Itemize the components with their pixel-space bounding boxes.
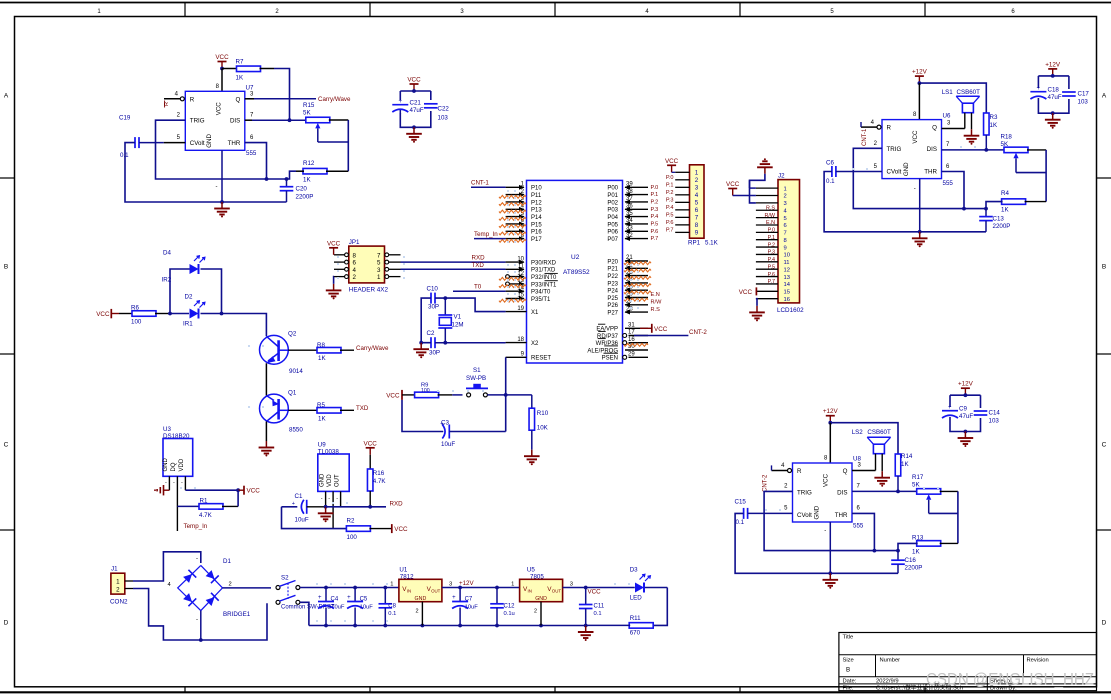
svg-text:7: 7 <box>695 215 699 222</box>
svg-text:9: 9 <box>695 230 699 237</box>
wire Q to LS1 <box>942 121 965 129</box>
svg-text:1K: 1K <box>990 122 998 129</box>
svg-text:Size: Size <box>843 658 854 664</box>
ground (R10) <box>524 450 540 466</box>
svg-text:U2: U2 <box>571 254 580 261</box>
svg-text:R3: R3 <box>990 114 998 121</box>
svg-text:P20: P20 <box>607 259 618 265</box>
svg-text:C17: C17 <box>1078 91 1090 98</box>
svg-text:CSB60T: CSB60T <box>957 89 981 96</box>
svg-text:+: + <box>1036 86 1040 92</box>
svg-text:P.6: P.6 <box>768 272 775 278</box>
regulator U1 7812 <box>390 567 452 626</box>
capacitor C1 10uF <box>282 493 328 524</box>
svg-text:1: 1 <box>784 186 787 192</box>
wire OUT to RXD <box>326 506 386 508</box>
svg-text:R2: R2 <box>347 518 355 525</box>
ground (U3) sideways <box>154 485 169 495</box>
svg-text:R1: R1 <box>200 498 208 505</box>
svg-text:C: C <box>4 442 9 449</box>
wire LCD pin16 to gnd <box>756 299 757 306</box>
svg-text:VCC: VCC <box>247 488 261 495</box>
svg-text:JP1: JP1 <box>349 239 360 246</box>
svg-text:1K: 1K <box>236 75 244 82</box>
svg-text:1K: 1K <box>318 355 326 362</box>
svg-text:5: 5 <box>377 260 381 267</box>
pin 4 reset of U6 <box>861 120 881 129</box>
svg-text:TXD: TXD <box>356 405 369 412</box>
capacitor C13 2200P <box>979 209 1010 232</box>
svg-text:VCC: VCC <box>739 289 753 296</box>
wire TXD net <box>401 262 506 269</box>
svg-text:P24: P24 <box>607 289 618 295</box>
ground (C9 C14) <box>958 432 974 448</box>
wire U7 gnd stub <box>216 150 224 204</box>
resistor R4 1K <box>986 190 1046 214</box>
wire <box>830 423 898 455</box>
wire U5 out <box>563 586 635 590</box>
svg-text:R/W: R/W <box>651 300 663 306</box>
svg-text:LCD1602: LCD1602 <box>777 307 804 314</box>
capacitor C7 10uF <box>452 588 478 626</box>
svg-text:7: 7 <box>784 231 787 237</box>
svg-text:C15: C15 <box>735 499 747 506</box>
svg-text:THR: THR <box>228 140 241 147</box>
svg-text:+12V: +12V <box>1045 61 1061 68</box>
svg-text:THR: THR <box>924 168 937 175</box>
svg-text:2200P: 2200P <box>296 194 314 201</box>
power VCC (U3) <box>238 486 260 495</box>
wire <box>265 422 267 442</box>
svg-text:P.4: P.4 <box>651 214 659 220</box>
capacitor C2 30P <box>427 330 441 357</box>
svg-text:P21: P21 <box>607 267 618 273</box>
svg-text:6: 6 <box>784 223 787 229</box>
wire <box>222 314 267 337</box>
wire VDD to VCC <box>185 488 240 492</box>
svg-text:22: 22 <box>626 263 633 269</box>
svg-text:C1: C1 <box>295 493 303 500</box>
capacitor C20 2200P <box>280 179 314 202</box>
svg-text:100: 100 <box>421 388 430 394</box>
svg-text:1: 1 <box>695 170 699 177</box>
wire <box>487 393 531 397</box>
net label CNT-1 (U6) <box>862 128 868 146</box>
pin 4 reset of U8 <box>772 463 792 472</box>
svg-text:D2: D2 <box>185 294 193 301</box>
wire JP1 pin2 to gnd <box>333 277 335 284</box>
resistor R7 1K <box>236 59 275 82</box>
svg-text:26: 26 <box>626 292 633 298</box>
capacitor C5 10uF <box>347 588 373 626</box>
potentiometer R17 5K <box>912 474 958 543</box>
net label Carry/Wave (Q2) <box>356 345 389 352</box>
power VCC (RP1) <box>665 158 679 173</box>
svg-text:GND: GND <box>319 473 325 487</box>
svg-text:8: 8 <box>695 222 699 229</box>
net label P.5 <box>651 222 659 228</box>
svg-text:4: 4 <box>695 192 699 199</box>
svg-text:8: 8 <box>353 252 357 259</box>
title block <box>839 633 1097 692</box>
svg-text:P10: P10 <box>531 186 542 192</box>
svg-text:VCC: VCC <box>215 102 222 116</box>
net labels at LCD <box>765 205 776 285</box>
svg-text:VCC: VCC <box>364 440 378 447</box>
svg-text:100: 100 <box>131 319 142 326</box>
svg-text:P14: P14 <box>531 215 542 221</box>
svg-text:32: 32 <box>626 233 633 239</box>
svg-text:GND: GND <box>206 134 213 148</box>
svg-text:C12: C12 <box>504 603 516 609</box>
svg-text:CNT-1: CNT-1 <box>471 180 489 187</box>
ground (JP1) <box>326 284 342 300</box>
ground (U8) <box>823 573 839 589</box>
svg-text:R5: R5 <box>317 402 325 409</box>
svg-text:U6: U6 <box>943 113 951 120</box>
svg-text:P34/T0: P34/T0 <box>531 290 551 296</box>
svg-text:10uF: 10uF <box>441 441 455 448</box>
wire Q to LS2 <box>852 463 876 471</box>
svg-text:37: 37 <box>626 196 633 202</box>
svg-text:P13: P13 <box>531 208 542 214</box>
svg-text:P00: P00 <box>607 186 618 192</box>
potentiometer R18 5K <box>1001 134 1047 202</box>
svg-text:R14: R14 <box>901 453 913 460</box>
svg-text:-: - <box>165 480 167 486</box>
op-amp U7 555 timer <box>185 85 257 158</box>
svg-text:P.4: P.4 <box>768 257 775 263</box>
svg-text:S2: S2 <box>281 575 289 582</box>
svg-text:R: R <box>887 125 892 132</box>
svg-text:CVolt: CVolt <box>190 140 205 147</box>
net label P.7 <box>651 236 659 242</box>
wire <box>265 171 296 181</box>
svg-text:100: 100 <box>347 534 358 541</box>
svg-text:P26: P26 <box>607 303 618 309</box>
svg-text:-: - <box>328 496 330 502</box>
svg-text:16: 16 <box>784 297 790 303</box>
svg-text:P03: P03 <box>607 208 618 214</box>
svg-text:R4: R4 <box>1001 190 1009 197</box>
svg-text:0.1: 0.1 <box>594 611 602 617</box>
svg-text:OUT: OUT <box>334 474 340 487</box>
svg-text:R.S: R.S <box>766 205 775 211</box>
svg-text:2200P: 2200P <box>905 565 923 572</box>
svg-text:TRIG: TRIG <box>797 489 812 496</box>
svg-text:VCC: VCC <box>215 54 229 61</box>
svg-text:VCC: VCC <box>327 240 341 247</box>
svg-text:P.1: P.1 <box>768 235 775 241</box>
svg-text:21: 21 <box>626 255 633 261</box>
pin 6 THR of U7 wire <box>245 135 267 179</box>
capacitor C9 C14 block wires <box>950 395 981 433</box>
pin 6 THR of U8 wire <box>852 506 874 551</box>
svg-text:C11: C11 <box>594 604 605 610</box>
svg-text:-: - <box>321 496 323 502</box>
wire pin8 stub U8 <box>824 423 830 463</box>
svg-text:3: 3 <box>377 267 381 274</box>
svg-text:TXD: TXD <box>472 262 485 269</box>
net label TXD (Q1) <box>356 405 369 412</box>
svg-text:2: 2 <box>116 587 120 594</box>
svg-text:+12V: +12V <box>459 580 474 587</box>
svg-text:33: 33 <box>626 226 633 232</box>
svg-text:Carry/Wave: Carry/Wave <box>318 96 351 103</box>
wire <box>222 68 238 70</box>
svg-text:36: 36 <box>626 204 633 210</box>
svg-text:7812: 7812 <box>400 573 414 580</box>
svg-text:25: 25 <box>626 284 633 290</box>
watermark CSDN <box>926 671 1094 689</box>
net label VCC (PSU) <box>588 589 602 596</box>
svg-text:D3: D3 <box>630 567 638 574</box>
wire S2 lower to rail <box>300 602 309 625</box>
svg-text:VCC: VCC <box>394 526 408 533</box>
ground (C21 C22) <box>406 127 422 143</box>
svg-text:P.1: P.1 <box>651 192 659 198</box>
svg-text:P.6: P.6 <box>651 229 659 235</box>
svg-text:HEADER 4X2: HEADER 4X2 <box>349 287 389 294</box>
svg-text:1: 1 <box>116 579 120 586</box>
svg-text:9014: 9014 <box>289 368 303 375</box>
svg-text:47uF: 47uF <box>410 107 424 114</box>
svg-text:-: - <box>216 184 218 190</box>
svg-text:47uF: 47uF <box>1048 94 1062 101</box>
svg-text:4: 4 <box>353 267 357 274</box>
net label P.0 <box>651 185 659 191</box>
net label CNT-2 (U8) <box>763 474 769 492</box>
resistor R5 1K <box>288 402 354 423</box>
svg-text:OUT: OUT <box>552 589 562 594</box>
ground (LCD bottom) <box>749 306 765 322</box>
svg-text:X2: X2 <box>531 341 539 347</box>
svg-text:Q: Q <box>235 96 240 103</box>
svg-text:10: 10 <box>784 253 790 259</box>
svg-text:LED: LED <box>630 595 643 602</box>
svg-text:2: 2 <box>229 582 232 588</box>
svg-text:J1: J1 <box>111 566 118 573</box>
svg-text:P11: P11 <box>531 193 542 199</box>
svg-text:R6: R6 <box>131 305 139 312</box>
switch S1 SW-PB <box>466 367 488 397</box>
svg-text:2200P: 2200P <box>993 223 1011 230</box>
svg-text:39: 39 <box>626 182 633 188</box>
svg-text:VCC: VCC <box>654 326 668 333</box>
svg-text:R15: R15 <box>303 102 315 109</box>
svg-text:R/W: R/W <box>765 213 776 219</box>
ground (LCD top) <box>757 158 773 174</box>
svg-text:X1: X1 <box>531 310 539 316</box>
svg-text:0.1u: 0.1u <box>504 611 515 617</box>
capacitor C15 0.1 <box>735 499 793 527</box>
potentiometer R15 5K <box>303 102 348 171</box>
wire <box>282 507 348 529</box>
svg-text:C: C <box>1102 442 1107 449</box>
svg-text:U9: U9 <box>318 442 326 449</box>
svg-text:10: 10 <box>517 256 524 262</box>
svg-text:CNT-2: CNT-2 <box>763 474 769 492</box>
svg-text:C13: C13 <box>993 216 1005 223</box>
svg-text:DIS: DIS <box>837 489 847 496</box>
svg-text:2: 2 <box>353 274 357 281</box>
svg-text:C8: C8 <box>388 603 396 609</box>
svg-text:U7: U7 <box>246 85 254 92</box>
svg-text:CNT-1: CNT-1 <box>862 128 868 146</box>
svg-text:16: 16 <box>628 337 635 343</box>
svg-text:P05: P05 <box>607 222 618 228</box>
pin 6 THR of U6 wire <box>942 164 965 209</box>
svg-text:1: 1 <box>390 581 393 587</box>
capacitor C6 0.1 <box>826 160 882 186</box>
svg-text:CNT-2: CNT-2 <box>689 329 707 336</box>
power VCC (R9) <box>386 390 402 400</box>
capacitor C12 0.1u <box>490 588 515 626</box>
capacitor C18 47uF <box>1030 86 1061 101</box>
svg-text:B: B <box>1102 264 1106 271</box>
net label P.2 <box>651 200 659 206</box>
svg-text:GND: GND <box>535 596 547 602</box>
svg-text:-: - <box>914 186 916 192</box>
capacitor C14 103 <box>974 410 1001 425</box>
diode D2 IR1 <box>183 294 223 328</box>
svg-text:GND: GND <box>415 596 427 602</box>
svg-text:1: 1 <box>377 274 381 281</box>
no-connect squiggles right of U2 <box>624 262 651 347</box>
wire <box>452 394 462 396</box>
svg-text:2: 2 <box>784 194 787 200</box>
svg-text:-: - <box>196 617 198 623</box>
svg-text:C20: C20 <box>296 186 308 193</box>
svg-text:1K: 1K <box>901 461 909 468</box>
power VCC (LCD pin15) <box>739 287 757 296</box>
svg-text:E.N: E.N <box>651 292 660 298</box>
svg-text:30P: 30P <box>428 304 439 311</box>
svg-text:File:: File: <box>843 686 854 692</box>
ground (U6) <box>912 232 928 248</box>
wire TRIG loop U8 <box>764 484 900 553</box>
svg-text:U3: U3 <box>163 426 171 433</box>
resistor R1 4.7K <box>177 490 238 519</box>
svg-text:DIS: DIS <box>927 146 937 153</box>
svg-text:P23: P23 <box>607 281 618 287</box>
svg-text:T0: T0 <box>474 284 482 291</box>
capacitor C21 47uF <box>392 99 424 114</box>
svg-text:11: 11 <box>784 260 790 266</box>
svg-text:P.0: P.0 <box>651 185 659 191</box>
svg-text:12: 12 <box>517 271 524 277</box>
svg-text:P15: P15 <box>531 222 542 228</box>
svg-text:47uF: 47uF <box>959 413 973 420</box>
svg-text:VCC: VCC <box>96 311 110 318</box>
svg-text:P.5: P.5 <box>651 222 659 228</box>
capacitor C19 0.1 <box>119 115 185 160</box>
pin 4 reset of U7 <box>164 92 185 108</box>
svg-text:10uF: 10uF <box>465 605 479 611</box>
svg-text:P30/RXD: P30/RXD <box>531 261 557 267</box>
net label R.S <box>651 307 661 313</box>
svg-text:Temp_In: Temp_In <box>474 231 498 238</box>
capacitor C21 C22 decoupling block wires <box>400 77 431 130</box>
svg-text:Q: Q <box>843 468 848 475</box>
svg-text:P.3: P.3 <box>651 207 659 213</box>
svg-text:C6: C6 <box>826 160 834 167</box>
svg-text:TRIG: TRIG <box>190 118 205 125</box>
svg-text:J2: J2 <box>778 173 785 180</box>
svg-text:B: B <box>4 264 8 271</box>
svg-text:2022/9/9: 2022/9/9 <box>876 678 899 684</box>
svg-text:+: + <box>948 405 952 411</box>
svg-text:0.1: 0.1 <box>388 611 396 617</box>
svg-text:-: - <box>181 480 183 486</box>
ground (crystal) <box>413 343 429 359</box>
svg-text:LS1: LS1 <box>942 89 954 96</box>
svg-text:+: + <box>398 99 402 105</box>
svg-text:P32/INT0: P32/INT0 <box>531 275 557 281</box>
svg-text:P33/INT1: P33/INT1 <box>531 282 557 288</box>
net label CNT-2 wire <box>634 329 707 336</box>
svg-text:P01: P01 <box>607 193 618 199</box>
svg-text:P16: P16 <box>531 230 542 236</box>
svg-text:+12V: +12V <box>912 69 928 76</box>
svg-text:Number: Number <box>880 658 901 664</box>
resistor network RP1 5.1K <box>675 165 718 247</box>
svg-text:CON2: CON2 <box>110 599 128 606</box>
diode D3 LED <box>630 567 668 602</box>
svg-text:P.7: P.7 <box>651 236 659 242</box>
svg-text:BRIDGE1: BRIDGE1 <box>223 611 251 618</box>
svg-text:C19: C19 <box>119 115 131 122</box>
resistor R12 1K <box>296 160 348 184</box>
svg-text:S1: S1 <box>473 367 481 374</box>
no-connect squiggles left of U2 <box>499 195 526 302</box>
svg-text:R11: R11 <box>630 615 641 622</box>
svg-text:3: 3 <box>570 581 573 587</box>
svg-text:5: 5 <box>695 200 699 207</box>
power +12V (U6) <box>912 69 928 85</box>
net label P.1 <box>651 192 659 198</box>
svg-text:555: 555 <box>246 150 257 157</box>
ground (U9) <box>318 507 334 523</box>
svg-text:IN: IN <box>528 589 532 594</box>
bridge rectifier D1 BRIDGE1 <box>168 556 251 640</box>
svg-text:R12: R12 <box>303 160 315 167</box>
svg-text:P17: P17 <box>531 237 542 243</box>
svg-text:VCC: VCC <box>407 77 421 84</box>
power VCC (JP1) <box>327 240 341 255</box>
svg-text:5: 5 <box>784 216 787 222</box>
svg-text:R17: R17 <box>912 474 924 481</box>
capacitor C22 103 <box>424 104 449 122</box>
svg-text:10uF: 10uF <box>360 605 374 611</box>
svg-text:5K: 5K <box>912 482 920 489</box>
svg-text:C2: C2 <box>427 330 435 337</box>
power VCC (LCD pin2) <box>726 181 756 196</box>
wire bridge to S2 <box>223 587 272 589</box>
svg-text:C21: C21 <box>410 100 422 107</box>
svg-text:10K: 10K <box>537 425 549 432</box>
svg-text:14: 14 <box>784 282 791 288</box>
svg-text:2: 2 <box>695 177 699 184</box>
svg-text:24: 24 <box>626 277 633 283</box>
transistor Q2 9014 <box>260 331 304 376</box>
svg-text:D: D <box>1102 620 1107 627</box>
svg-text:P.7: P.7 <box>666 228 674 234</box>
wire C19 to gnd rail <box>125 143 287 202</box>
svg-text:6: 6 <box>353 260 357 267</box>
svg-text:Carry/Wave: Carry/Wave <box>356 345 389 352</box>
svg-text:6: 6 <box>695 207 699 214</box>
